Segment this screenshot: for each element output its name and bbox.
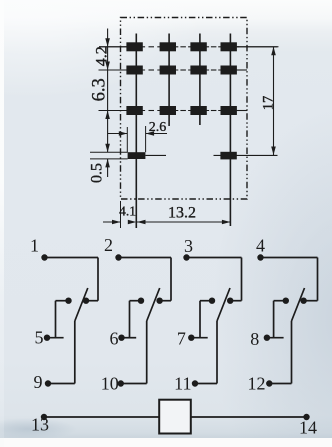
pole 2 switch blade	[147, 288, 160, 321]
coil pad right (terminal 14)	[220, 152, 236, 160]
svg-text:3: 3	[184, 236, 193, 256]
svg-text:1: 1	[30, 236, 39, 256]
svg-text:2: 2	[104, 235, 113, 255]
terminal pad row 3 col 2	[160, 106, 176, 115]
svg-text:4: 4	[256, 236, 265, 256]
dimension 17 line	[273, 47, 275, 155]
svg-text:4.1: 4.1	[119, 204, 136, 219]
relay body outline (dash-dot)	[121, 18, 248, 200]
dimension 4.1 leader	[103, 221, 121, 223]
svg-text:2.6: 2.6	[149, 120, 167, 135]
pole 2 terminal 2 dot	[115, 254, 121, 260]
terminal 14 dot	[303, 414, 309, 420]
pole 1 terminal 1 dot	[41, 254, 47, 260]
svg-text:0.5: 0.5	[89, 163, 106, 183]
pole 4 common contact dot	[300, 298, 306, 304]
pole 1 wire: fixed contact to terminal 5	[56, 300, 69, 302]
svg-text:8: 8	[250, 329, 259, 349]
pole 1 terminal 9 dot	[45, 380, 51, 386]
terminal pad row 3 col 4	[221, 106, 237, 115]
svg-text:6: 6	[110, 329, 119, 349]
pole 3 terminal 3 dot	[183, 254, 189, 260]
dimension 13.2 line	[136, 221, 230, 223]
terminal pad row 2 col 3	[190, 66, 206, 75]
svg-text:13.2: 13.2	[168, 205, 196, 222]
pole 2 fixed contact dot	[138, 298, 144, 304]
extension line row2	[99, 69, 128, 71]
pole 3 fixed contact dot	[209, 298, 215, 304]
terminal row centre line 1	[99, 46, 145, 48]
pole 4 wire: blade to terminal 12	[291, 321, 293, 384]
terminal pad row 1 col 3	[190, 42, 206, 51]
svg-text:10: 10	[101, 374, 119, 394]
pole 3 wire: blade to terminal 11	[216, 321, 218, 384]
terminal 13 dot	[41, 414, 47, 420]
svg-text:9: 9	[34, 372, 43, 392]
pole 1 common contact dot	[83, 298, 89, 304]
terminal pad row 2 col 4	[221, 66, 237, 75]
pole 1 terminal 5 dot	[44, 335, 50, 341]
terminal column line 1	[135, 34, 137, 229]
relay coil	[159, 400, 191, 434]
pole 3 terminal 11 dot	[192, 380, 198, 386]
pole 3 terminal 7 dot	[188, 335, 194, 341]
pole 3 switch blade	[217, 288, 230, 321]
svg-text:6.3: 6.3	[90, 78, 110, 101]
pole 1 wire: terminal 1 to common	[45, 257, 99, 259]
pole 4 wire: terminal 4 to common	[261, 257, 318, 259]
pole 2 wire: terminal 2 to common	[119, 257, 172, 259]
pole 4 fixed contact dot	[283, 298, 289, 304]
extension lines 0.5 pad edges	[90, 151, 128, 153]
coil pad left (terminal 13)	[128, 152, 146, 159]
dimension 17 extension top	[237, 46, 279, 48]
terminal column line 4	[229, 34, 231, 227]
terminal pad row 1 col 4	[221, 42, 237, 51]
coil pad row line left	[145, 154, 166, 156]
terminal pad row 2 col 1	[126, 66, 142, 75]
dimension 2.6 leader right	[146, 133, 167, 135]
pole 4 terminal 8 dot	[264, 335, 270, 341]
pole 1 switch blade	[75, 288, 88, 321]
svg-text:14: 14	[299, 418, 317, 438]
pole 2 terminal 10 dot	[118, 380, 124, 386]
svg-text:5: 5	[35, 328, 44, 348]
terminal column line 3	[199, 34, 201, 126]
svg-text:11: 11	[174, 374, 191, 394]
left dimension line lower part (0.5)	[107, 159, 109, 177]
terminal row centre line 3	[99, 110, 145, 112]
svg-text:12: 12	[248, 374, 266, 394]
pole 3 wire: terminal 3 to common	[187, 257, 242, 259]
pole 2 wire: blade to terminal 10	[146, 321, 148, 384]
dimension 2.6 leader left	[108, 133, 128, 135]
svg-text:7: 7	[177, 329, 186, 349]
pole 2 wire: fixed contact to terminal 6	[130, 300, 142, 302]
pole 4 switch blade	[292, 288, 305, 321]
terminal pad row 3 col 1	[126, 106, 142, 115]
wire coil to terminal 14	[191, 416, 307, 418]
pole 2 terminal 6 dot	[118, 335, 124, 341]
terminal pad row 1 col 1	[126, 42, 142, 51]
extension line row3	[99, 110, 128, 112]
left dimension line	[107, 29, 109, 153]
pole 1 fixed contact dot	[65, 298, 71, 304]
pole 4 terminal 12 dot	[266, 380, 272, 386]
pole 3 wire: fixed contact to terminal 7	[200, 300, 212, 302]
wire terminal 13 to coil	[44, 416, 159, 418]
dimension 4.1/13.2 extension: body edge	[120, 201, 122, 228]
extension line row1	[99, 46, 127, 48]
pole 2 common contact dot	[156, 298, 162, 304]
svg-text:4.2: 4.2	[94, 46, 111, 66]
pole 4 terminal 4 dot	[257, 254, 263, 260]
terminal pad row 2 col 2	[160, 66, 176, 75]
terminal pad row 3 col 3	[190, 106, 206, 115]
terminal column line 2	[168, 34, 170, 127]
terminal pad row 1 col 2	[160, 42, 176, 51]
pole 3 common contact dot	[227, 298, 233, 304]
terminal row centre line 2	[99, 69, 145, 71]
dimension 2.6 extension lines	[126, 127, 128, 152]
pole 4 wire: fixed contact to terminal 8	[274, 300, 286, 302]
svg-text:17: 17	[260, 96, 276, 111]
coil pad row line right	[214, 154, 278, 156]
pole 1 wire: blade to terminal 9	[74, 321, 76, 384]
